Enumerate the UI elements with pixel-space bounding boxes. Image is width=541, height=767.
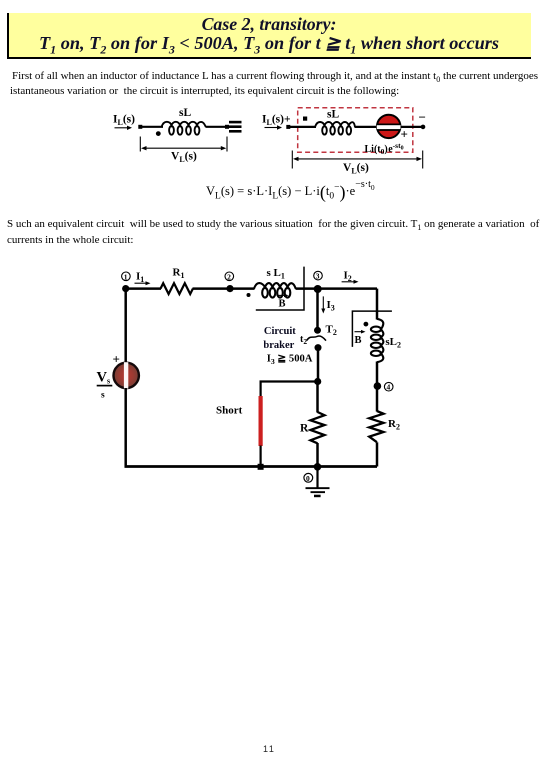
B arrow of L2 xyxy=(355,330,366,334)
wire left terminal to coil xyxy=(138,125,163,129)
node 3 junction dot xyxy=(314,285,322,293)
bottom junction dot xyxy=(314,463,322,471)
wire junction to R xyxy=(316,382,319,413)
label IL(s) left xyxy=(113,114,135,128)
wire node1 to R1 xyxy=(126,287,161,290)
polarity square dot (right figure) xyxy=(303,117,307,121)
wire node3 down to T2 xyxy=(316,289,319,330)
short branch upper wire xyxy=(260,382,262,397)
polarity dot (left figure) xyxy=(156,131,161,136)
svg-text:R: R xyxy=(300,423,309,435)
svg-text:IL(s)+: IL(s)+ xyxy=(262,114,291,128)
I3 arrow xyxy=(321,296,325,313)
paragraph 1 line 2 xyxy=(10,85,541,97)
wire T2 to junction xyxy=(317,348,320,382)
ground stub xyxy=(316,467,318,489)
svg-text:IL(s): IL(s) xyxy=(113,114,135,128)
inductor sL (right figure) xyxy=(315,122,355,135)
wire coil to source xyxy=(355,126,378,128)
banner line 1 xyxy=(7,14,531,35)
VL(s) measurement arrow (right figure) xyxy=(292,151,422,169)
wire L2 to node 4 xyxy=(376,362,379,412)
wire node3 to right branch top xyxy=(318,287,378,290)
paragraph 2 line 2 xyxy=(7,234,407,246)
inductor sL2 xyxy=(371,319,384,362)
svg-text:B: B xyxy=(355,335,362,346)
svg-text:I3: I3 xyxy=(327,299,335,313)
svg-text:I1: I1 xyxy=(136,271,144,285)
wire right branch down to L2 xyxy=(376,289,379,320)
label Circuit braker xyxy=(263,326,296,351)
page number xyxy=(263,744,275,754)
svg-text:Vs: Vs xyxy=(97,370,111,386)
paragraph 1 line 1 xyxy=(12,70,541,82)
B arrow of L1 xyxy=(277,294,289,298)
polarity dot of L2 xyxy=(364,322,369,327)
svg-text:Li(t0)e-st0: Li(t0)e-st0 xyxy=(365,141,404,156)
svg-text:3: 3 xyxy=(316,272,320,281)
node 2 junction dot xyxy=(226,285,233,292)
thyristor T2 top contact xyxy=(314,327,321,334)
short branch bottom terminal xyxy=(258,464,264,470)
svg-text:R1: R1 xyxy=(173,266,185,280)
svg-text:I3 ≧ 500A: I3 ≧ 500A xyxy=(267,354,313,366)
svg-text:4: 4 xyxy=(387,383,391,392)
svg-text:+: + xyxy=(401,127,408,142)
svg-text:T2: T2 xyxy=(326,323,337,337)
bottom wire xyxy=(125,465,378,468)
svg-text:s: s xyxy=(101,390,105,400)
flux bracket of L1 xyxy=(256,267,304,310)
wire R1 to node 2 xyxy=(193,287,255,290)
svg-text:sL2: sL2 xyxy=(385,336,401,350)
node 2 circled xyxy=(225,272,234,281)
node 3 circled xyxy=(314,271,323,280)
node 0 circled xyxy=(304,473,313,483)
svg-text:2: 2 xyxy=(227,272,231,281)
resistor R2 xyxy=(369,411,383,442)
source Vs/s xyxy=(114,362,139,388)
node 1 circled xyxy=(122,272,131,281)
thyristor T2 bottom contact xyxy=(315,344,322,351)
I2 arrow xyxy=(342,280,359,284)
svg-text:Circuit: Circuit xyxy=(264,326,296,337)
svg-text:s L1: s L1 xyxy=(267,267,285,281)
resistor R xyxy=(311,412,325,443)
wire coil to right terminal xyxy=(206,125,230,129)
svg-text:1: 1 xyxy=(124,272,128,281)
polarity dot of L1 xyxy=(247,293,251,297)
initial-condition source Li(t0)e^-st0 xyxy=(375,115,402,138)
svg-text:VL(s): VL(s) xyxy=(171,151,197,165)
wire junction to short branch xyxy=(260,380,319,382)
left branch wire source to bottom xyxy=(124,388,127,468)
IL(s) arrow right figure xyxy=(265,125,283,129)
wire R to bottom xyxy=(316,443,319,467)
left branch wire node1 to source xyxy=(124,289,127,363)
title banner xyxy=(7,13,531,59)
svg-text:B: B xyxy=(279,299,286,310)
VL(s) measurement arrow (left figure) xyxy=(140,137,227,152)
flux bracket of L2 xyxy=(352,311,392,347)
wire R2 to bottom xyxy=(376,442,379,466)
svg-text:braker: braker xyxy=(263,340,294,351)
ground symbol xyxy=(306,487,330,497)
inductor sL1 xyxy=(254,283,296,298)
wire L1 to node 3 xyxy=(296,287,319,290)
svg-text:Short: Short xyxy=(216,405,243,417)
svg-text:I2: I2 xyxy=(344,269,352,283)
node 4 circled xyxy=(384,382,393,391)
equivalence symbol xyxy=(229,121,242,133)
label Vs over s xyxy=(97,370,113,401)
wire source to right terminal xyxy=(401,125,426,130)
dashed red equivalent box xyxy=(298,108,413,153)
resistor R1 xyxy=(161,283,193,294)
I1 arrow xyxy=(135,281,151,285)
svg-text:sL: sL xyxy=(179,107,191,119)
svg-text:sL: sL xyxy=(327,109,339,121)
wire left terminal to coil (right figure) xyxy=(286,125,316,129)
equation V_L(s) = sL I_L(s) - L i(t0-) e^-st0 xyxy=(206,179,375,203)
svg-text:0: 0 xyxy=(306,474,310,483)
banner line 2 xyxy=(7,33,531,54)
short branch lower wire xyxy=(260,446,262,467)
node 4 junction dot xyxy=(374,382,382,390)
paragraph 2 line 1 xyxy=(7,218,541,230)
short circuit red bar xyxy=(259,396,263,446)
node 1 junction dot xyxy=(122,285,129,292)
svg-text:R2: R2 xyxy=(388,418,400,432)
svg-text:VL(s): VL(s) xyxy=(343,162,369,176)
T2 switch blade xyxy=(307,336,326,341)
inductor sL (left figure) xyxy=(162,122,206,135)
IL(s) arrow left xyxy=(115,126,133,130)
junction dot below T2 xyxy=(314,378,321,385)
svg-text:−: − xyxy=(419,110,426,125)
